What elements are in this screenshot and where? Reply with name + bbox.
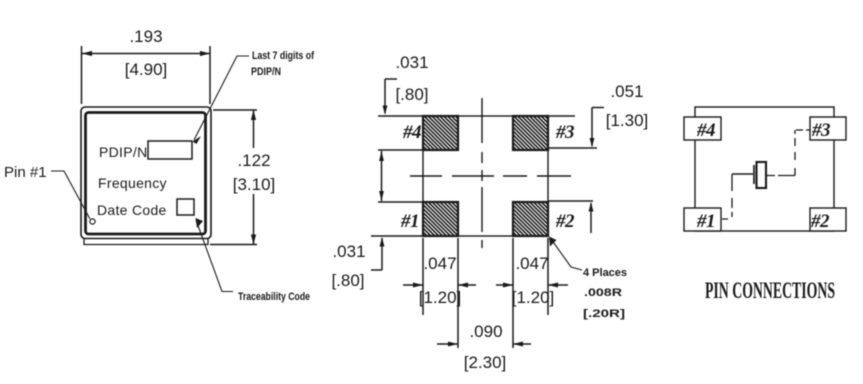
svg-text:[3.10]: [3.10] xyxy=(233,175,276,194)
pad #1 (hatched) xyxy=(423,202,458,236)
pin 1 indicator dot xyxy=(90,219,95,224)
leader Traceability Code xyxy=(196,218,234,292)
svg-text:.122: .122 xyxy=(237,151,270,170)
svg-text:Traceability Code: Traceability Code xyxy=(238,291,310,303)
dimension .090 [2.30] xyxy=(437,322,531,372)
package lid (inner outline) xyxy=(86,113,206,235)
svg-text:4 Places: 4 Places xyxy=(583,267,627,279)
wire crystal to plate (left) xyxy=(732,173,753,175)
svg-text:[2.30]: [2.30] xyxy=(464,353,507,372)
pin pad #1 xyxy=(684,208,721,231)
pin pad #4 xyxy=(684,117,721,140)
svg-text:#3: #3 xyxy=(555,122,574,143)
dimension .047 [1.20] left xyxy=(403,254,476,307)
package outer body outline xyxy=(81,107,211,239)
svg-text:#1: #1 xyxy=(696,211,715,232)
crystal Y1 body xyxy=(757,162,767,188)
note 4 Places .008R [.20R] leader xyxy=(549,237,582,271)
dimension .193 [4.90] top xyxy=(82,27,211,104)
pin pad #2 xyxy=(810,208,846,231)
date code marking box xyxy=(177,199,194,215)
svg-text:.031: .031 xyxy=(332,242,365,261)
dimension .051 [1.30] right xyxy=(589,82,649,233)
wire crystal to corner (right) xyxy=(767,130,810,176)
svg-text:#4: #4 xyxy=(696,120,715,141)
svg-text:.090: .090 xyxy=(469,322,502,341)
svg-text:.047: .047 xyxy=(515,254,548,273)
pin connections body xyxy=(695,107,834,231)
svg-text:PDIP/N: PDIP/N xyxy=(99,144,147,160)
left extension lines xyxy=(371,116,423,236)
right extension lines xyxy=(548,116,597,201)
note 4 Places .008R [.20R] text xyxy=(583,267,627,320)
package base plate xyxy=(84,239,208,245)
PDIP/N marking box xyxy=(148,141,192,159)
svg-text:[.80]: [.80] xyxy=(331,271,364,290)
centerline vertical xyxy=(481,98,483,248)
svg-text:[.20R]: [.20R] xyxy=(583,308,625,320)
svg-text:[1.30]: [1.30] xyxy=(606,111,649,130)
dimension .122 [3.10] right xyxy=(210,110,275,245)
svg-text:#3: #3 xyxy=(811,120,830,141)
svg-text:.051: .051 xyxy=(610,82,643,101)
svg-text:Pin #1: Pin #1 xyxy=(4,164,47,181)
svg-text:[1.20]: [1.20] xyxy=(419,288,462,307)
svg-text:Frequency: Frequency xyxy=(98,175,167,191)
pin pad #3 xyxy=(810,117,846,140)
wire pin1 to crystal (dashed) xyxy=(722,174,732,219)
dimension .047 [1.20] right xyxy=(496,254,568,307)
leader Pin #1 xyxy=(51,171,90,219)
svg-text:.193: .193 xyxy=(129,27,162,46)
leader Last 7 digits xyxy=(193,56,250,144)
pad #2 (hatched) xyxy=(513,202,548,236)
svg-text:.008R: .008R xyxy=(584,287,622,299)
svg-text:[1.20]: [1.20] xyxy=(512,288,555,307)
dimension .031 [.80] bottom-left xyxy=(331,237,384,290)
pad #3 (hatched) xyxy=(513,116,548,150)
pad #4 (hatched) xyxy=(423,116,458,150)
land pattern package outline xyxy=(423,116,548,236)
svg-text:#1: #1 xyxy=(400,211,419,232)
svg-text:[.80]: [.80] xyxy=(395,85,428,104)
svg-text:[4.90]: [4.90] xyxy=(125,60,168,79)
svg-text:.031: .031 xyxy=(395,53,428,72)
bottom extension lines xyxy=(423,238,548,348)
svg-text:PDIP/N: PDIP/N xyxy=(251,66,281,78)
crystal Y1 left plate xyxy=(753,165,755,184)
svg-text:.047: .047 xyxy=(423,254,456,273)
dimension .031 [.80] top-left xyxy=(383,53,429,115)
label Last 7 digits of PDIP/N xyxy=(251,50,314,78)
svg-text:Date Code: Date Code xyxy=(97,202,167,218)
centerline horizontal xyxy=(410,175,571,177)
svg-text:#4: #4 xyxy=(402,122,421,143)
pad gap double arrow (left) xyxy=(379,151,384,201)
svg-text:Last 7 digits of: Last 7 digits of xyxy=(252,50,314,62)
svg-text:PIN CONNECTIONS: PIN CONNECTIONS xyxy=(705,278,835,303)
svg-text:#2: #2 xyxy=(810,211,830,232)
svg-text:#2: #2 xyxy=(555,211,575,232)
